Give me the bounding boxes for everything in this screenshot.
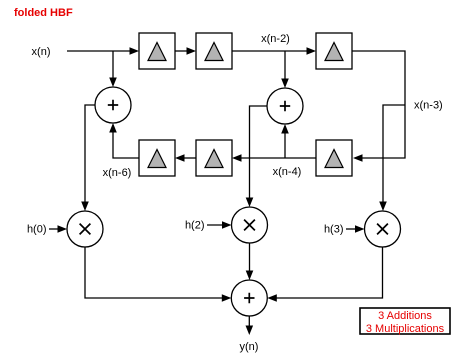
delay Z2 — [196, 33, 232, 69]
wire h(0) to multiplier M1 — [49, 225, 67, 233]
svg-text:folded HBF: folded HBF — [14, 7, 73, 19]
wire adder A1 to multiplier M1 — [81, 105, 95, 211]
svg-text:h(0): h(0) — [27, 224, 47, 236]
svg-text:x(n-2): x(n-2) — [261, 33, 290, 45]
multiplier M1 — [67, 211, 103, 247]
wire Z3 output right and down to delay Z4 (node x(n-3) vertical) — [352, 51, 405, 162]
wire multiplier M2 to adder A3 — [246, 243, 254, 280]
wire adder A3 output to y(n) — [246, 316, 254, 335]
wire branch x(n-2) down to adder A2 — [281, 51, 289, 88]
multiplier M3 — [365, 211, 401, 247]
wire branch x(n-3) to multiplier M3 — [379, 105, 405, 211]
svg-text:x(n): x(n) — [32, 46, 51, 58]
svg-text:x(n-6): x(n-6) — [103, 167, 132, 179]
svg-text:x(n-3): x(n-3) — [414, 100, 443, 112]
svg-text:3 Additions: 3 Additions — [378, 310, 432, 322]
svg-text:h(3): h(3) — [324, 224, 344, 236]
wire branch x(n-4) up to adder A2 — [281, 124, 289, 158]
delay Z5 — [196, 140, 232, 176]
svg-text:3 Multiplications: 3 Multiplications — [366, 323, 445, 335]
delay Z1 — [139, 33, 175, 69]
wire x(n) input to delay Z1 — [67, 47, 139, 55]
wire h(3) to multiplier M3 — [346, 225, 365, 233]
wire Z2 to Z3 (node x(n-2)) — [232, 47, 316, 55]
adder A2 — [267, 88, 303, 124]
svg-text:h(2): h(2) — [185, 220, 205, 232]
adder A1 — [95, 87, 131, 123]
svg-text:x(n-4): x(n-4) — [273, 166, 302, 178]
wire h(2) to multiplier M2 — [207, 221, 232, 229]
adder A3 — [231, 280, 267, 316]
wire Z5 to Z6 — [175, 154, 196, 162]
svg-text:y(n): y(n) — [240, 341, 259, 353]
wire multiplier M3 to adder A3 — [267, 247, 382, 302]
wire multiplier M1 to adder A3 — [85, 247, 231, 302]
annotation box "3 Additions / 3 Multiplications" — [360, 308, 450, 335]
delay Z6 — [139, 140, 175, 176]
wire Z1 to Z2 — [175, 47, 196, 55]
wire Z4 to Z5 (node x(n-4)) — [232, 154, 316, 162]
wire Z6 output x(n-6) up to adder A1 — [109, 123, 139, 158]
delay Z3 — [316, 33, 352, 69]
delay Z4 — [316, 140, 352, 176]
multiplier M2 — [232, 207, 268, 243]
wire branch x(n) down to adder A1 — [109, 51, 117, 87]
wire adder A2 to multiplier M2 — [246, 106, 267, 207]
